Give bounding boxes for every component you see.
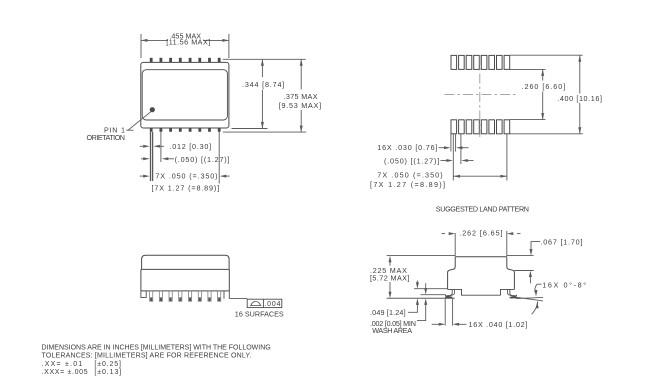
svg-text:ORIETATION: ORIETATION — [87, 133, 126, 142]
top view pins row bottom — [150, 128, 221, 132]
pin 1 leader line — [128, 112, 151, 130]
svg-text:.004: .004 — [264, 301, 280, 308]
svg-text:.012 [0.30]: .012 [0.30] — [170, 142, 212, 151]
pin 1 edge extension lines (double) — [150, 132, 152, 181]
svg-text:.067 [1.70]: .067 [1.70] — [540, 238, 582, 247]
land pattern pad 1 extension lines — [450, 134, 452, 152]
dimension 16X .040 [1.02] lead width — [444, 299, 446, 326]
svg-text:.XXX= ±.005: .XXX= ±.005 — [42, 369, 88, 376]
dimension .067 [1.70] — [531, 241, 540, 243]
dimension .002 [0.05] MIN wash area — [425, 283, 427, 288]
svg-text:TOLERANCES: [MILLIMETERS] AR: TOLERANCES: [MILLIMETERS] ARE FOR REFERE… — [42, 353, 252, 360]
svg-text:.XX= ±.01: .XX= ±.01 — [42, 361, 83, 368]
svg-text:(.050) [(1.27)]: (.050) [(1.27)] — [384, 156, 440, 165]
end view body outline — [448, 257, 515, 290]
pin 1 index dot — [150, 107, 155, 112]
svg-text:16X 0°-8°: 16X 0°-8° — [542, 280, 586, 289]
extension lines right of top view — [223, 58, 306, 60]
svg-text:7X .050 (=.350): 7X .050 (=.350) — [377, 170, 443, 179]
extension line body bottom left — [414, 288, 448, 290]
end view lead shelf left — [448, 289, 515, 295]
svg-text:.400 [10.16]: .400 [10.16] — [557, 94, 602, 103]
svg-text:.262 [6.65]: .262 [6.65] — [459, 229, 503, 238]
svg-text:[7X 1.27 (=8.89)]: [7X 1.27 (=8.89)] — [370, 180, 445, 189]
top view package body outline — [141, 62, 229, 128]
svg-text:DIMENSIONS ARE IN INCHES [MILL: DIMENSIONS ARE IN INCHES [MILLIMETERS] W… — [42, 344, 271, 351]
svg-text:WASH AREA: WASH AREA — [372, 326, 412, 335]
extension line top left (for .225) — [387, 254, 456, 256]
angle dimension arc upper — [535, 284, 537, 293]
svg-text:[±0.13]: [±0.13] — [94, 369, 121, 376]
pin 8 extension line — [218, 132, 220, 184]
land pattern pad 2 extension line — [460, 134, 462, 164]
svg-text:.344 [8.74]: .344 [8.74] — [242, 80, 285, 89]
svg-text:.375 MAX: .375 MAX — [284, 92, 318, 101]
end view left lead — [445, 289, 452, 296]
svg-text:(.050) [(1.27)]: (.050) [(1.27)] — [175, 155, 230, 164]
extension line wash area — [421, 294, 446, 296]
dimension .225 MAX [5.72 MAX] — [389, 262, 391, 266]
dimension .400 [10.16] — [510, 54, 583, 56]
dimension .262 [6.65] — [454, 233, 456, 256]
land pattern top pads — [451, 55, 510, 69]
extension line .067 bottom — [514, 270, 533, 272]
extension line top right (for .067) — [507, 255, 534, 257]
dimension .260 [6.60] — [510, 68, 546, 70]
top view package lid — [142, 70, 227, 120]
side view right flange — [224, 291, 229, 299]
dimension (.050) [(1.27)] pitch — [141, 158, 144, 160]
seating plane line — [387, 297, 455, 299]
vertical centerline — [479, 55, 481, 137]
angle dimension arc lower — [532, 302, 538, 315]
angle leader — [537, 283, 542, 285]
svg-text:16 SURFACES: 16 SURFACES — [235, 310, 284, 319]
land pattern pad 8 extension line — [506, 134, 508, 181]
side view cap — [142, 255, 230, 269]
horizontal centerline — [445, 94, 518, 96]
pin 2 center extension line — [160, 132, 162, 162]
svg-text:[5.72 MAX]: [5.72 MAX] — [370, 274, 410, 283]
svg-text:7X .050 (=.350): 7X .050 (=.350) — [155, 172, 217, 181]
angle reference lines 0-8 degrees — [516, 297, 543, 298]
dimension .344 [8.74] — [261, 59, 263, 77]
svg-text:[±0.25]: [±0.25] — [94, 361, 121, 368]
svg-text:[7X 1.27 (=8.89)]: [7X 1.27 (=8.89)] — [152, 183, 220, 192]
svg-text:16X .040 [1.02]: 16X .040 [1.02] — [469, 320, 528, 329]
flatness callout leader — [229, 298, 247, 300]
land pattern bottom pads — [451, 120, 510, 134]
svg-text:16X .030 [0.76]: 16X .030 [0.76] — [377, 143, 437, 152]
svg-text:.049 [1.24]: .049 [1.24] — [370, 308, 406, 317]
flatness callout box — [247, 299, 282, 307]
flatness symbol — [250, 301, 262, 305]
dimension .455 MAX overall width — [140, 34, 142, 58]
dimension .375 MAX [9.53 MAX] — [300, 59, 302, 89]
side view leads — [150, 291, 221, 301]
dimension 7X .050 (=.350) — [140, 175, 144, 177]
side view left flange — [141, 291, 146, 298]
svg-text:[11.56 MAX]: [11.56 MAX] — [166, 38, 210, 47]
svg-text:SUGGESTED LAND PATTERN: SUGGESTED LAND PATTERN — [436, 205, 530, 214]
side view body — [141, 269, 229, 291]
end view right lead — [510, 289, 517, 296]
svg-text:.260 [6.60]: .260 [6.60] — [522, 82, 566, 91]
dimension .049 [1.24] — [416, 281, 418, 283]
svg-text:[9.53 MAX]: [9.53 MAX] — [279, 101, 322, 110]
top view pins row top — [150, 58, 221, 63]
dimension .012 [0.30] lead width — [140, 145, 144, 147]
